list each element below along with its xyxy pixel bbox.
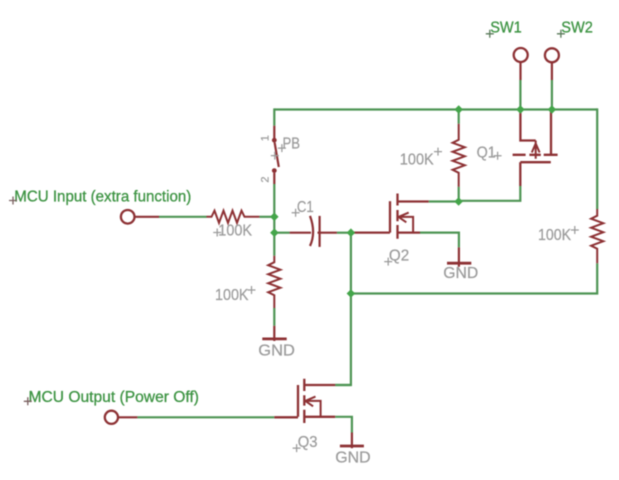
ground GND mid (Q2 source) <box>447 247 471 266</box>
Q1 gate lead <box>519 162 521 186</box>
Q3 channel segments <box>303 379 305 423</box>
ground GND bottom (Q3 source) <box>340 433 364 449</box>
label SW1 <box>490 19 522 36</box>
SW2 pin stub <box>551 62 553 80</box>
wire Q2 source to GND <box>420 233 459 248</box>
junction node J6 <box>270 228 279 237</box>
Q2 drain lead <box>398 200 429 202</box>
wire R to Q2 node <box>458 187 460 202</box>
label MCU Input <box>14 189 191 206</box>
Q2 gate bar <box>389 201 391 232</box>
wire output to Q3 gate <box>137 416 274 418</box>
label SW2 <box>561 19 593 36</box>
Q2 channel segments <box>396 194 398 239</box>
svg-text:GND: GND <box>335 450 370 467</box>
wire R above Q2 node <box>458 110 460 124</box>
origin cross pulldown left <box>248 286 256 294</box>
Q1 drain lead <box>550 110 552 155</box>
resistor R pulldown left 100K <box>268 256 280 308</box>
label 100K (Q1 gate resistor) <box>400 152 434 169</box>
pin circle SW1 <box>514 48 528 62</box>
svg-text:MCU Input (extra function): MCU Input (extra function) <box>14 189 191 206</box>
junction node J5 <box>270 213 279 222</box>
wire right vertical lower + bottom horizontal <box>351 263 597 293</box>
wire SW2 down <box>551 80 553 110</box>
origin cross MCU Input <box>9 197 17 205</box>
junction node J1 <box>454 105 463 114</box>
Q1 channel segments <box>513 154 558 156</box>
Q3 drain lead <box>304 384 335 386</box>
wire top rail <box>274 108 597 110</box>
junction node J7 <box>347 228 356 237</box>
Q2 gate lead <box>352 231 390 233</box>
origin cross MCU Output <box>24 397 32 405</box>
origin cross Q1 gate resistor <box>434 148 442 156</box>
origin cross Q2 <box>384 258 392 266</box>
wire SW1 down <box>519 80 521 110</box>
PB pin number 1 <box>259 135 271 141</box>
resistor R pullup Q1 gate 100K <box>453 124 465 187</box>
ground GND left <box>262 326 286 341</box>
junction node J8 <box>347 289 356 298</box>
label GND left <box>258 343 295 360</box>
PB origin cross <box>271 152 279 160</box>
origin cross PB label <box>278 144 286 152</box>
wire input to resistor <box>159 216 207 218</box>
origin cross SW1 <box>486 30 494 38</box>
pushbutton PB <box>274 126 279 184</box>
label 100K (input resistor) <box>218 223 252 240</box>
PB pin 2 dot <box>272 168 277 173</box>
capacitor C1 <box>290 216 337 247</box>
transistor Q2 (n-mosfet) <box>352 194 429 239</box>
junction node J3 <box>548 105 557 114</box>
resistor R right 100K <box>591 209 603 263</box>
svg-text:100K: 100K <box>538 227 571 244</box>
svg-text:GND: GND <box>443 265 478 282</box>
origin cross right resistor <box>571 226 579 234</box>
label Q1 <box>477 145 496 162</box>
svg-text:100K: 100K <box>215 287 249 304</box>
junction node J2 <box>516 105 525 114</box>
transistor Q3 (n-mosfet) <box>274 379 335 423</box>
wire C1 right to node <box>337 232 351 234</box>
wire node to C1 left <box>274 232 289 234</box>
origin cross input resistor <box>213 229 221 237</box>
svg-text:SW1: SW1 <box>490 19 522 36</box>
wire PB bottom to node <box>273 184 275 256</box>
label Q2 <box>389 248 409 265</box>
svg-text:Q1: Q1 <box>477 145 496 162</box>
Q1 source lead <box>520 110 535 141</box>
pin circle MCU input <box>121 210 135 224</box>
transistor Q1 (p-mosfet) <box>513 110 558 187</box>
svg-text:PB: PB <box>283 135 301 152</box>
wire pulldown R to GND <box>273 308 275 326</box>
label C1 <box>297 199 314 216</box>
Q3 gate lead <box>274 416 298 418</box>
label Q3 <box>298 434 318 451</box>
wire mid vertical node to C1 <box>350 233 352 294</box>
PB pin 1 dot <box>272 138 277 143</box>
svg-text:100K: 100K <box>218 223 252 240</box>
svg-text:Q3: Q3 <box>298 434 318 451</box>
wire Q3 drain <box>335 384 351 386</box>
origin cross SW2 <box>557 30 565 38</box>
label 100K (pulldown left) <box>215 287 249 304</box>
origin cross Q1 <box>494 152 502 160</box>
SW1 pin stub <box>519 62 521 80</box>
input pin stub <box>135 216 160 218</box>
label PB <box>283 135 301 152</box>
label MCU Output <box>29 389 200 406</box>
wire Q3 source to GND <box>335 417 352 433</box>
Q3 source lead <box>304 416 335 418</box>
wire Q2 drain to node <box>429 200 459 202</box>
Q1 substrate arrow <box>532 141 540 159</box>
Q3 gate bar <box>297 385 299 417</box>
label GND bottom <box>335 450 370 467</box>
wire Q1 gate to node <box>459 186 521 201</box>
Q2 substrate arrow <box>399 213 414 233</box>
svg-text:1: 1 <box>259 135 271 141</box>
Q1 gate bar <box>520 161 551 163</box>
label GND mid <box>443 265 478 282</box>
Q2 source lead <box>398 231 421 233</box>
pin circle MCU output <box>105 411 118 424</box>
svg-text:MCU Output (Power Off): MCU Output (Power Off) <box>29 389 200 406</box>
PB pin number 2 <box>260 176 272 182</box>
origin cross C1 <box>292 209 300 217</box>
svg-text:SW2: SW2 <box>561 19 593 36</box>
svg-text:2: 2 <box>260 176 272 182</box>
Q3 substrate arrow <box>305 397 320 417</box>
svg-text:100K: 100K <box>400 152 434 169</box>
output pin stub <box>118 416 137 418</box>
label 100K (right resistor) <box>538 227 571 244</box>
resistor R input 100K <box>207 211 260 223</box>
wire node down to Q3 drain <box>335 294 351 386</box>
origin cross Q3 <box>293 444 301 452</box>
pin circle SW2 <box>545 48 559 62</box>
svg-text:GND: GND <box>258 343 295 360</box>
wire resistor to node <box>259 216 274 218</box>
wire right vertical upper <box>596 108 598 209</box>
junction node J4 <box>454 197 463 206</box>
wire PB top <box>273 108 275 125</box>
